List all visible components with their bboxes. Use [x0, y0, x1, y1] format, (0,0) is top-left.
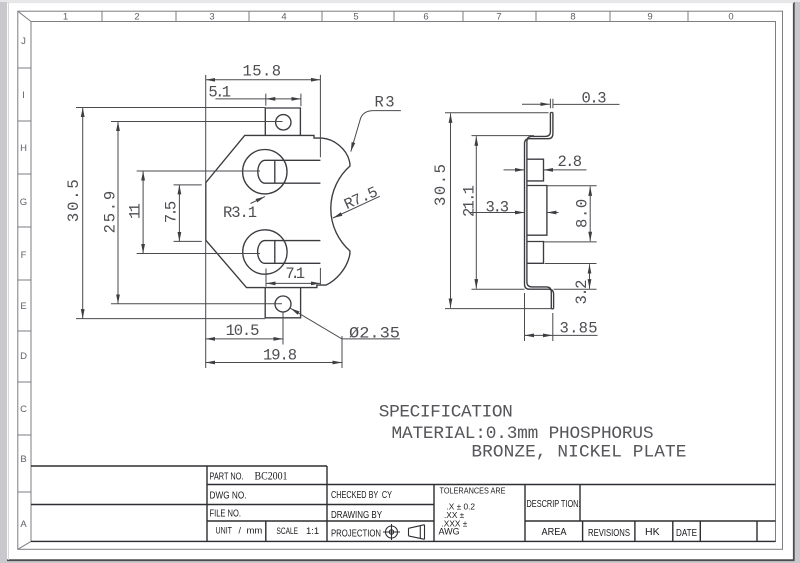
zone letters left band [20, 36, 28, 530]
leader R3.1 [251, 197, 265, 204]
extension ticks 0.3 [550, 99, 553, 109]
svg-text:REVISIONS: REVISIONS [588, 527, 630, 539]
front view top mounting tab [265, 108, 300, 135]
svg-text:30.5: 30.5 [65, 179, 83, 222]
lower contact dome chord line [274, 241, 276, 264]
upper contact outer circle R3.1 [243, 150, 287, 194]
projection symbol circle [383, 524, 425, 540]
svg-text:DATE: DATE [676, 527, 697, 539]
front view body outline [206, 135, 350, 287]
leader R7.5 [333, 196, 380, 218]
upper contact dome chord line [274, 160, 276, 183]
extension line tab bottom [76, 318, 265, 320]
svg-text:19.8: 19.8 [263, 347, 297, 365]
svg-text:5.1: 5.1 [208, 84, 231, 102]
extension line side tab top [445, 112, 549, 114]
top band cell dividers [102, 11, 688, 21]
side view bump 3 [527, 242, 544, 264]
corner miter bottom-left [18, 541, 31, 549]
svg-text:TOLERANCES ARE: TOLERANCES ARE [440, 486, 506, 496]
svg-text:CHECKED BY CY: CHECKED BY CY [331, 489, 392, 501]
svg-text:7: 7 [496, 12, 501, 23]
svg-text:R3.1: R3.1 [223, 204, 257, 222]
svg-text:Ø2.35: Ø2.35 [349, 325, 400, 343]
dim line 21.1 [475, 136, 477, 288]
extension line bump2 top [547, 185, 596, 187]
svg-text:3.3: 3.3 [486, 199, 510, 217]
extension lines 3.85 [525, 293, 553, 341]
svg-text:8.0: 8.0 [573, 199, 591, 228]
title block bottom (inner frame bottom reinforced) [31, 540, 776, 542]
extension lines 7.1 left [265, 269, 267, 287]
side view bump 2 (middle) [527, 186, 547, 236]
leader dia 2.35 [291, 308, 401, 339]
zone numbers top band [63, 12, 734, 23]
svg-text:8: 8 [570, 12, 575, 23]
front view bottom tab hole [275, 296, 291, 312]
svg-text:SPECIFICATION: SPECIFICATION [379, 403, 513, 423]
svg-text:7.5: 7.5 [162, 201, 180, 223]
svg-text:9: 9 [647, 12, 652, 23]
svg-text:21.1: 21.1 [460, 185, 478, 217]
svg-text:D: D [20, 351, 27, 362]
svg-text:BC2001: BC2001 [255, 469, 288, 483]
dim line 3.3 [470, 212, 525, 214]
svg-text:MATERIAL:0.3mm PHOSPHORUS: MATERIAL:0.3mm PHOSPHORUS [392, 424, 654, 444]
svg-text:1:1: 1:1 [306, 526, 319, 537]
svg-text:0: 0 [728, 12, 733, 23]
dim line 7.1 [266, 282, 320, 284]
svg-text:G: G [20, 197, 27, 208]
svg-text:7.1: 7.1 [285, 265, 305, 283]
extension line 10.5 right [282, 313, 284, 345]
extension line 19.8 right [341, 336, 343, 368]
dim line 8.0 [589, 186, 591, 241]
title block row line 3 [31, 504, 434, 506]
tolerance block texts [439, 486, 506, 537]
leader R3 [351, 111, 401, 152]
svg-text:5: 5 [353, 12, 358, 23]
side view tab end caps [550, 113, 553, 309]
svg-text:PROJECTION: PROJECTION [331, 528, 381, 540]
svg-text:H: H [20, 143, 27, 154]
upper contact slot [258, 160, 321, 183]
page edge lines [793, 2, 795, 561]
title block vertical dividers [207, 466, 757, 541]
side view profile inner surface [527, 113, 551, 309]
extension line side tab bottom [445, 308, 553, 310]
svg-text:2.8: 2.8 [558, 153, 583, 171]
dim line 7.5 [178, 185, 180, 242]
extension line lower contact center [137, 253, 260, 255]
svg-text:E: E [20, 301, 26, 312]
svg-text:R3: R3 [375, 94, 395, 112]
svg-text:6: 6 [423, 12, 428, 23]
left band cell dividers [18, 68, 31, 492]
gray scan margins [0, 0, 7, 563]
svg-text:DWG NO.: DWG NO. [210, 490, 247, 502]
svg-text:SCALE: SCALE [277, 526, 299, 536]
side view bump 1 (2.8) [527, 159, 544, 181]
dim line 11 [142, 171, 144, 254]
svg-text:25.9: 25.9 [102, 191, 120, 234]
extension line web bottom right [554, 288, 597, 290]
svg-text:BRONZE, NICKEL PLATE: BRONZE, NICKEL PLATE [471, 442, 686, 462]
svg-text:HK: HK [645, 526, 660, 538]
svg-text:AREA: AREA [542, 526, 567, 538]
title block lines [31, 466, 776, 541]
extension line top hole center [111, 121, 283, 123]
svg-text:30.5: 30.5 [432, 164, 450, 206]
svg-text:3.2: 3.2 [573, 280, 591, 305]
extension lines 7.5 [174, 185, 202, 242]
dim line 10.5 [206, 338, 283, 340]
lower contact outer circle [243, 230, 287, 274]
title block row line 4 [207, 520, 776, 522]
svg-text:I: I [22, 90, 25, 101]
side view profile outer surface [525, 113, 554, 309]
extension line tab top [76, 107, 265, 109]
title block texts [210, 469, 698, 540]
lower contact slot [258, 241, 321, 264]
svg-text:3: 3 [209, 12, 214, 23]
projection symbol cone [409, 525, 425, 540]
dim line 15.8 [206, 79, 321, 81]
dim line 0.3 [522, 103, 550, 105]
svg-text:mm: mm [247, 526, 263, 537]
svg-text:PART NO.: PART NO. [210, 471, 244, 483]
extension line bump3 top [544, 241, 597, 243]
svg-text:10.5: 10.5 [226, 322, 260, 340]
svg-text:1: 1 [63, 12, 68, 23]
specification note text [379, 403, 687, 463]
corner miter top-left [18, 11, 31, 21]
dim line 3.2 [589, 264, 591, 288]
extension line bottom hole center [111, 303, 282, 305]
extension line web top [472, 135, 535, 137]
front view bottom mounting tab [265, 288, 300, 318]
svg-text:11: 11 [127, 203, 145, 219]
extension line bump3 bottom [545, 263, 597, 265]
svg-text:DRAWING BY: DRAWING BY [331, 509, 382, 521]
svg-text:B: B [20, 454, 26, 465]
svg-text:3.85: 3.85 [560, 320, 598, 338]
dim line 30.5 front [82, 108, 84, 319]
svg-text:DESCRIP TION:: DESCRIP TION: [527, 498, 581, 510]
svg-text:FILE NO.: FILE NO. [210, 508, 242, 520]
extension line web bottom left [472, 288, 525, 290]
extension line upper contact center [137, 170, 260, 172]
dim line 30.5 side [450, 113, 452, 308]
svg-text:0.3: 0.3 [582, 90, 607, 108]
extension lines 5.1 [266, 94, 301, 107]
dim line 2.8 [504, 169, 525, 171]
dim line 5.1 [266, 98, 301, 100]
title block top edge left portion [31, 465, 327, 467]
svg-text:A: A [20, 519, 27, 530]
title block row line 2 [207, 484, 776, 486]
svg-text:UNIT: UNIT [216, 526, 233, 536]
dim line 19.8 [206, 362, 342, 364]
extension line body left edge column [205, 75, 207, 368]
svg-text:C: C [20, 404, 27, 415]
front view top tab hole [276, 115, 291, 130]
svg-text:2: 2 [134, 12, 139, 23]
svg-text:F: F [21, 250, 27, 261]
svg-text:15.8: 15.8 [243, 63, 282, 81]
extension line slot right end column [319, 75, 321, 286]
svg-text:AWG: AWG [439, 527, 460, 537]
svg-text:J: J [21, 36, 26, 47]
dim line 25.9 [117, 122, 119, 304]
dim line 3.85 [525, 334, 553, 336]
svg-text:4: 4 [281, 12, 286, 23]
